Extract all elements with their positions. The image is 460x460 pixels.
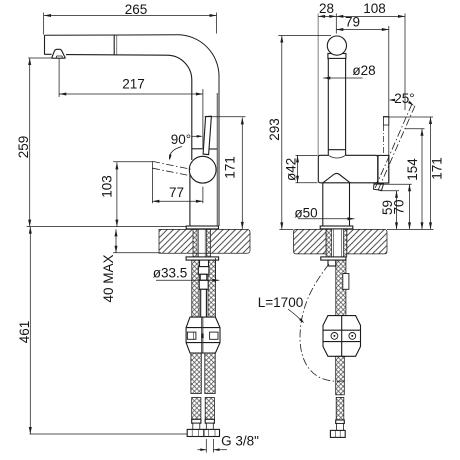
svg-text:70: 70 (391, 199, 406, 214)
svg-text:ø50: ø50 (294, 205, 317, 220)
svg-text:217: 217 (122, 77, 145, 92)
svg-text:77: 77 (169, 185, 184, 200)
svg-text:154: 154 (405, 158, 420, 181)
svg-text:90°: 90° (171, 132, 191, 147)
svg-text:171: 171 (430, 157, 445, 180)
svg-text:L=1700: L=1700 (258, 295, 303, 310)
svg-text:461: 461 (17, 321, 32, 344)
svg-text:40 MAX: 40 MAX (101, 254, 116, 302)
svg-text:28: 28 (319, 1, 334, 16)
svg-text:ø33.5: ø33.5 (153, 265, 188, 280)
svg-text:ø28: ø28 (352, 63, 375, 78)
svg-text:171: 171 (222, 156, 237, 179)
svg-text:ø42: ø42 (284, 158, 299, 181)
svg-text:259: 259 (16, 136, 31, 159)
svg-text:103: 103 (99, 175, 114, 198)
svg-text:79: 79 (345, 15, 360, 30)
svg-text:293: 293 (267, 118, 282, 141)
svg-text:108: 108 (363, 1, 386, 16)
svg-text:265: 265 (125, 2, 148, 17)
svg-text:G 3/8": G 3/8" (221, 434, 259, 449)
